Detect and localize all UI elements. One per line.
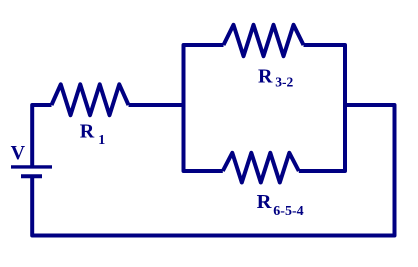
svg-text:6-5-4: 6-5-4 xyxy=(273,204,303,219)
svg-text:V: V xyxy=(11,142,26,164)
wire parallel-box right bar with top and bottom leads xyxy=(299,45,345,171)
wire R1 to node A xyxy=(129,103,184,107)
resistor R1 xyxy=(52,84,129,115)
svg-text:1: 1 xyxy=(98,133,105,148)
resistor R3-2 xyxy=(224,25,304,56)
battery V bottom plate xyxy=(21,174,42,178)
wire parallel-box left bar with top and bottom leads xyxy=(184,45,224,171)
battery V top plate xyxy=(11,165,52,168)
svg-text:R: R xyxy=(80,121,95,143)
resistor R6-5-4 xyxy=(223,153,299,183)
wire left-top vertical from battery to R1 lead xyxy=(32,105,51,167)
svg-text:R: R xyxy=(257,191,272,213)
svg-text:3-2: 3-2 xyxy=(275,74,293,89)
svg-text:R: R xyxy=(258,66,273,88)
wire node B stub, right side, bottom, and return to battery xyxy=(32,105,394,236)
